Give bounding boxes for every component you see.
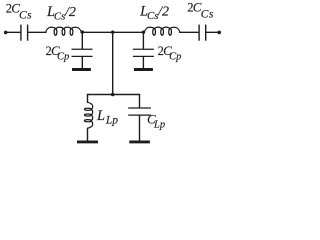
- svg-text:Lp: Lp: [105, 114, 118, 126]
- node input terminal: [4, 31, 8, 35]
- wire left shunt stub: [81, 32, 83, 48]
- wire: [81, 57, 83, 68]
- ground right shunt: [134, 68, 153, 71]
- node junction right: [142, 31, 145, 34]
- svg-text:Cp: Cp: [57, 52, 69, 63]
- svg-text:Cp: Cp: [169, 52, 181, 63]
- ground L_Lp: [77, 140, 98, 143]
- node output terminal: [217, 31, 221, 35]
- capacitor 2C_Cs right: [199, 25, 206, 41]
- wire bottom tee: [88, 95, 140, 108]
- wire: [87, 128, 89, 140]
- svg-text:/2: /2: [157, 4, 169, 19]
- wire top rail: [81, 31, 143, 33]
- ground C_Lp: [129, 140, 150, 143]
- wire: [139, 116, 141, 141]
- svg-text:Lp: Lp: [153, 119, 165, 130]
- inductor L_Lp: [84, 102, 92, 128]
- wire right shunt stub: [142, 32, 144, 48]
- node junction left: [81, 30, 84, 33]
- svg-text:Cs: Cs: [54, 10, 65, 22]
- wire: [28, 31, 46, 33]
- wire input: [6, 31, 21, 33]
- svg-text:Cs: Cs: [147, 10, 158, 22]
- wire center stub: [112, 32, 114, 94]
- svg-text:L: L: [96, 108, 105, 124]
- node junction center: [111, 31, 114, 34]
- capacitor 2C_Cp left: [72, 49, 93, 56]
- capacitor 2C_Cp right: [133, 49, 154, 56]
- inductor L_Cs/2 right: [144, 27, 180, 35]
- ground left shunt: [72, 68, 91, 71]
- wire: [180, 31, 199, 33]
- node junction bottom: [111, 93, 115, 97]
- inductor L_Cs/2 left: [46, 27, 82, 35]
- wire output: [206, 31, 219, 33]
- capacitor 2C_Cs left: [21, 25, 28, 41]
- wire: [142, 57, 144, 68]
- svg-text:Cs: Cs: [201, 8, 214, 20]
- capacitor C_Lp: [128, 108, 151, 115]
- svg-text:Cs: Cs: [19, 9, 32, 21]
- svg-text:/2: /2: [64, 5, 76, 20]
